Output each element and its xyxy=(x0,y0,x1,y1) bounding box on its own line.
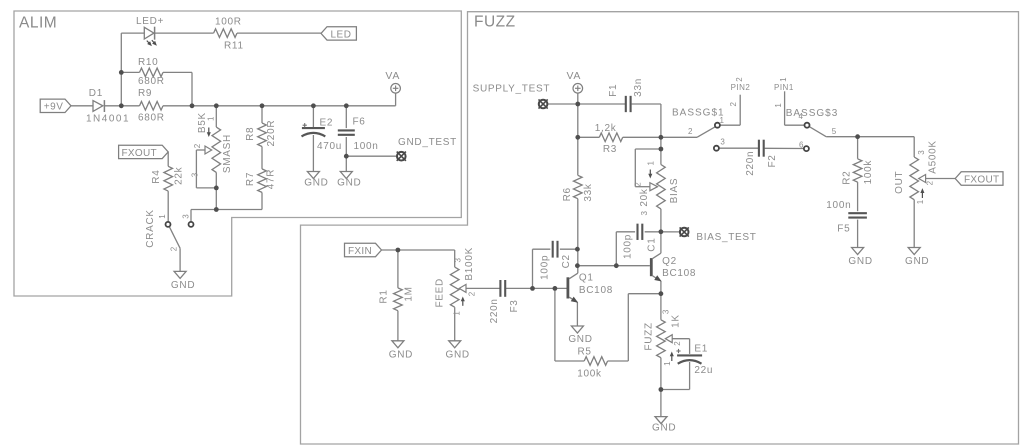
svg-text:FUZZ: FUZZ xyxy=(644,322,655,350)
svg-text:GND: GND xyxy=(905,256,929,267)
svg-text:1K: 1K xyxy=(671,314,682,328)
svg-text:2: 2 xyxy=(735,77,744,82)
svg-text:100n: 100n xyxy=(826,200,851,211)
svg-text:220R: 220R xyxy=(266,120,277,147)
svg-text:Q2: Q2 xyxy=(662,256,677,267)
svg-text:1: 1 xyxy=(206,116,215,121)
svg-text:R1: R1 xyxy=(378,289,389,303)
svg-text:FXOUT: FXOUT xyxy=(122,148,157,159)
svg-text:2: 2 xyxy=(688,127,693,136)
svg-text:3: 3 xyxy=(662,309,671,314)
svg-text:BC108: BC108 xyxy=(662,268,696,279)
svg-text:B5K: B5K xyxy=(197,112,208,133)
svg-text:3: 3 xyxy=(720,137,725,146)
svg-text:VA: VA xyxy=(385,70,400,82)
svg-text:1: 1 xyxy=(647,160,656,165)
svg-text:SMASH: SMASH xyxy=(222,134,233,173)
svg-text:20k: 20k xyxy=(639,188,650,207)
svg-text:3: 3 xyxy=(190,172,199,177)
svg-text:33n: 33n xyxy=(633,78,644,97)
svg-text:100n: 100n xyxy=(354,141,379,152)
svg-text:22u: 22u xyxy=(694,365,713,376)
svg-text:C1: C1 xyxy=(647,238,658,252)
svg-text:100p: 100p xyxy=(623,234,634,259)
svg-text:A500K: A500K xyxy=(928,140,939,174)
svg-text:220n: 220n xyxy=(489,298,500,323)
svg-text:SUPPLY_TEST: SUPPLY_TEST xyxy=(473,84,551,95)
svg-text:R3: R3 xyxy=(603,144,617,155)
svg-text:Q1: Q1 xyxy=(579,272,594,283)
svg-text:R7: R7 xyxy=(245,172,256,186)
svg-text:3: 3 xyxy=(917,150,926,155)
svg-text:R2: R2 xyxy=(842,171,853,185)
svg-text:GND: GND xyxy=(568,334,592,345)
svg-text:3: 3 xyxy=(182,214,191,219)
svg-text:2: 2 xyxy=(633,182,642,187)
svg-text:R11: R11 xyxy=(224,41,244,52)
svg-text:LED: LED xyxy=(331,29,352,40)
svg-text:2: 2 xyxy=(926,180,935,185)
svg-text:FXIN: FXIN xyxy=(348,246,372,257)
svg-text:680R: 680R xyxy=(138,112,165,123)
svg-text:1M: 1M xyxy=(403,286,414,301)
svg-text:100p: 100p xyxy=(540,255,551,280)
svg-text:R6: R6 xyxy=(562,187,573,201)
svg-text:3: 3 xyxy=(640,211,649,216)
svg-text:GND: GND xyxy=(446,350,470,361)
svg-text:1: 1 xyxy=(158,214,167,219)
svg-text:2: 2 xyxy=(193,143,202,148)
svg-text:5: 5 xyxy=(832,127,837,136)
svg-text:1: 1 xyxy=(720,116,725,125)
svg-text:3: 3 xyxy=(454,258,463,263)
svg-text:1: 1 xyxy=(663,361,672,366)
svg-text:2: 2 xyxy=(169,246,178,251)
svg-text:R4: R4 xyxy=(151,170,162,184)
svg-text:47R: 47R xyxy=(265,169,276,189)
svg-text:E2: E2 xyxy=(320,118,334,129)
svg-text:33k: 33k xyxy=(583,183,594,202)
svg-text:470u: 470u xyxy=(317,141,342,152)
svg-text:4: 4 xyxy=(799,112,804,121)
svg-text:22k: 22k xyxy=(173,166,184,185)
svg-text:1: 1 xyxy=(774,103,783,108)
svg-text:+9V: +9V xyxy=(44,102,64,113)
svg-text:F2: F2 xyxy=(767,154,778,167)
svg-text:BASSG$1: BASSG$1 xyxy=(672,108,725,119)
svg-text:CRACK: CRACK xyxy=(145,209,156,248)
svg-text:OUT: OUT xyxy=(894,171,905,194)
svg-text:GND: GND xyxy=(171,280,195,291)
svg-text:BIAS: BIAS xyxy=(669,178,680,204)
svg-text:PIN2: PIN2 xyxy=(731,83,751,92)
svg-text:R8: R8 xyxy=(245,127,256,141)
svg-text:1N4001: 1N4001 xyxy=(86,114,130,125)
svg-text:F5: F5 xyxy=(837,224,850,235)
svg-text:GND: GND xyxy=(389,350,413,361)
svg-text:1: 1 xyxy=(916,199,925,204)
svg-text:100k: 100k xyxy=(863,160,874,185)
svg-text:B100K: B100K xyxy=(464,247,475,281)
svg-text:GND: GND xyxy=(304,178,328,189)
svg-text:220n: 220n xyxy=(745,151,756,176)
svg-text:6: 6 xyxy=(799,140,804,149)
svg-text:D1: D1 xyxy=(89,88,103,99)
svg-text:2: 2 xyxy=(468,291,477,296)
svg-text:E1: E1 xyxy=(694,344,708,355)
svg-text:C2: C2 xyxy=(561,254,572,268)
svg-text:BIAS_TEST: BIAS_TEST xyxy=(696,232,756,243)
svg-text:VA: VA xyxy=(567,70,582,82)
svg-text:GND: GND xyxy=(848,256,872,267)
svg-text:LED+: LED+ xyxy=(136,16,164,27)
svg-text:R10: R10 xyxy=(138,57,158,68)
svg-text:2: 2 xyxy=(673,341,682,346)
svg-text:F3: F3 xyxy=(509,299,520,312)
svg-text:680R: 680R xyxy=(138,76,165,87)
svg-text:GND: GND xyxy=(337,178,361,189)
svg-text:BASSG$3: BASSG$3 xyxy=(786,108,839,119)
svg-text:F1: F1 xyxy=(608,84,619,97)
svg-text:PIN1: PIN1 xyxy=(774,83,794,92)
svg-text:1,2k: 1,2k xyxy=(595,123,617,134)
svg-text:BC108: BC108 xyxy=(579,285,613,296)
svg-text:100k: 100k xyxy=(577,368,602,379)
svg-text:FUZZ: FUZZ xyxy=(474,14,516,31)
svg-text:R9: R9 xyxy=(138,88,152,99)
svg-text:1: 1 xyxy=(779,77,788,82)
svg-text:R5: R5 xyxy=(578,346,592,357)
svg-text:FXOUT: FXOUT xyxy=(964,174,999,185)
svg-text:ALIM: ALIM xyxy=(19,15,57,32)
svg-text:GND: GND xyxy=(652,422,676,433)
svg-text:FEED: FEED xyxy=(435,278,446,307)
svg-text:1: 1 xyxy=(453,311,462,316)
svg-text:2: 2 xyxy=(729,102,738,107)
svg-text:F6: F6 xyxy=(353,117,366,128)
svg-text:100R: 100R xyxy=(215,17,242,28)
svg-text:GND_TEST: GND_TEST xyxy=(398,137,457,148)
